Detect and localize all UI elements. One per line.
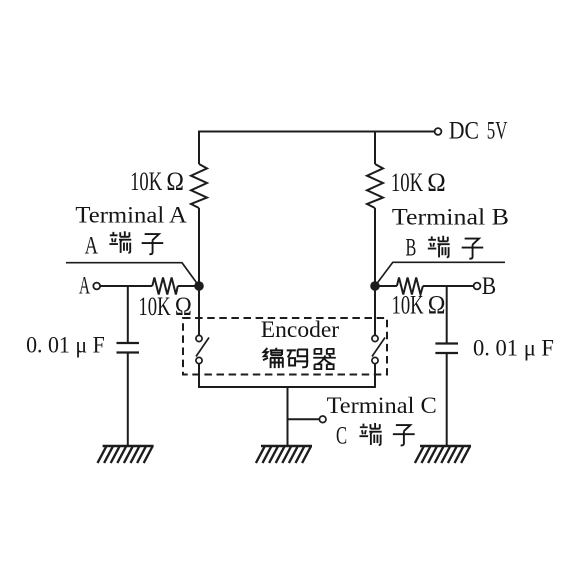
- resistor R4 (series B): [397, 278, 423, 295]
- node A junction dot: [194, 281, 204, 291]
- wire: +5V top rail: [199, 131, 435, 133]
- svg-text:B: B: [406, 233, 417, 261]
- switch SA bottom contact: [196, 357, 202, 363]
- svg-text:DC: DC: [449, 117, 479, 145]
- wire: capacitor C2 to ground: [446, 353, 448, 446]
- wire: terminal A to resistor R3: [100, 285, 152, 287]
- svg-text:Ω: Ω: [427, 167, 445, 197]
- wire: R3 to node A: [178, 285, 199, 287]
- switch SB top contact: [372, 335, 378, 341]
- leader line: A 端子 to node A: [66, 263, 199, 286]
- wire: R2 bottom to node B: [374, 208, 376, 286]
- svg-text:Terminal A: Terminal A: [75, 203, 187, 228]
- terminal C (open circle): [319, 416, 326, 423]
- svg-text:Ω: Ω: [166, 168, 184, 196]
- terminal B (open circle): [474, 283, 481, 290]
- wire: node B to resistor R4: [375, 285, 397, 287]
- label 编码器 (器 glyph): [313, 349, 336, 369]
- capacitor C1 plates: [117, 343, 140, 353]
- wire: node A into encoder switch SA: [198, 286, 200, 335]
- wire: switch SB to bottom bus: [374, 364, 376, 387]
- wire: R1 bottom to node A: [198, 208, 200, 286]
- wire: right rail from +5V to resistor R2: [374, 131, 376, 165]
- svg-text:Terminal B: Terminal B: [392, 205, 509, 230]
- wire: A line down to capacitor C1: [127, 286, 129, 343]
- svg-text:10K: 10K: [392, 291, 425, 320]
- ground (right): [415, 446, 471, 463]
- svg-text:10K: 10K: [138, 292, 171, 321]
- node B junction dot: [370, 281, 380, 291]
- ground (center): [256, 446, 312, 463]
- terminal A (open circle): [93, 283, 100, 290]
- switch SB blade: [372, 338, 385, 357]
- svg-text:A: A: [79, 273, 90, 300]
- svg-text:0. 01 μ F: 0. 01 μ F: [473, 335, 554, 360]
- resistor R1 (pull-up A): [191, 164, 207, 208]
- resistor R2 (pull-up B): [367, 164, 383, 208]
- label C 端子 (子 glyph): [393, 425, 415, 445]
- label B 端子 (端 glyph): [428, 236, 450, 258]
- svg-text:C: C: [336, 421, 347, 449]
- terminal DC 5V (open circle): [435, 128, 442, 135]
- resistor R3 (series A): [152, 278, 178, 295]
- label A 端子 (子 glyph): [142, 234, 164, 254]
- label 编码器 (码 glyph): [287, 350, 309, 368]
- svg-text:A: A: [85, 231, 98, 259]
- svg-text:B: B: [482, 272, 496, 300]
- switch SA top contact: [196, 335, 202, 341]
- label B 端子 (子 glyph): [462, 239, 484, 259]
- svg-text:5V: 5V: [487, 116, 508, 144]
- wire: B line down to capacitor C2: [446, 286, 448, 344]
- svg-text:Ω: Ω: [428, 292, 446, 320]
- wire: capacitor C1 to ground: [127, 353, 129, 447]
- svg-text:Terminal C: Terminal C: [327, 394, 437, 419]
- label 编码器 (编 glyph): [263, 348, 283, 368]
- svg-text:10K: 10K: [130, 167, 163, 196]
- wire: switch SA to bottom bus: [198, 364, 200, 387]
- switch SB bottom contact: [372, 357, 378, 363]
- svg-text:Encoder: Encoder: [261, 317, 340, 343]
- encoder dashed box U1: [183, 318, 387, 375]
- wire: resistor R4 to terminal B: [423, 285, 474, 287]
- svg-text:0. 01 μ F: 0. 01 μ F: [26, 332, 105, 358]
- svg-text:10K: 10K: [391, 168, 424, 197]
- wire: bus center down to ground: [287, 387, 289, 446]
- label C 端子 (端 glyph): [359, 423, 381, 445]
- wire: bottom bus: [198, 386, 376, 388]
- wire: left rail from +5V to resistor R1: [198, 131, 200, 165]
- ground (left): [98, 446, 154, 463]
- leader line: B 端子 to node B: [375, 262, 505, 286]
- wire: node B into encoder switch SB: [374, 286, 376, 335]
- capacitor C2 plates: [435, 344, 458, 354]
- switch SA blade: [196, 338, 209, 357]
- wire: branch to terminal C: [288, 418, 320, 420]
- label A 端子 (端 glyph): [109, 231, 131, 253]
